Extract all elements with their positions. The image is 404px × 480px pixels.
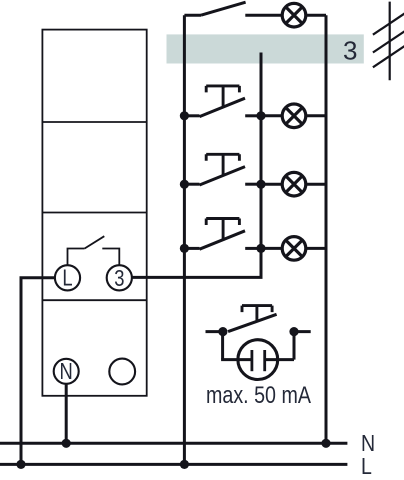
terminal 3 circle bbox=[107, 265, 132, 290]
wire: lamp E3 to right bus bbox=[306, 183, 326, 186]
legend: illuminated push button left lead bbox=[206, 332, 223, 360]
terminal N circle bbox=[54, 359, 79, 384]
wire: lamp E1 to right bus bbox=[306, 14, 326, 17]
internal relay contact blade bbox=[85, 236, 105, 248]
lamp E2 bbox=[282, 104, 306, 128]
push button S3 blade bbox=[200, 167, 246, 185]
row 3: junction dot on middle bus bbox=[256, 244, 265, 253]
legend: junction dot left bbox=[218, 327, 227, 336]
legend: glow lamp circle bbox=[238, 340, 278, 380]
row 1: junction dot on middle bus bbox=[256, 111, 265, 120]
device box divider 2 bbox=[42, 212, 146, 214]
wire: middle bus to lamp E4 bbox=[261, 247, 282, 250]
wire: top row left bbox=[184, 14, 201, 17]
device box divider 3 bbox=[42, 299, 146, 301]
row 2: stub to middle bus bbox=[245, 183, 261, 186]
3-conductor continuation hatch: vertical line bbox=[389, 2, 391, 81]
junction dot right bus on N line bbox=[321, 439, 330, 448]
row 1: junction dot on left bus bbox=[180, 111, 189, 120]
junction dot N terminal on N line bbox=[62, 439, 71, 448]
junction dot left bus on L line bbox=[180, 460, 189, 469]
row 3: junction dot on left bus bbox=[180, 244, 189, 253]
hatch slash 3 bbox=[373, 46, 404, 68]
svg-text:3: 3 bbox=[114, 266, 124, 291]
switch S1 blade bbox=[201, 2, 246, 15]
svg-text:L: L bbox=[62, 266, 72, 291]
wire: left bus bbox=[183, 15, 186, 464]
svg-text:N: N bbox=[361, 430, 375, 456]
terminal L circle bbox=[55, 265, 80, 290]
row 1: stub to middle bus bbox=[245, 114, 261, 117]
row 3: push button S4 stub bbox=[184, 247, 199, 250]
hatch slash 1 bbox=[373, 13, 404, 35]
N line bbox=[0, 442, 347, 445]
legend: right lead bbox=[294, 332, 311, 360]
device box divider 1 bbox=[42, 121, 146, 123]
row 3: stub to middle bus bbox=[245, 247, 261, 250]
lamp E1 bbox=[282, 3, 306, 27]
lamp E3 bbox=[282, 172, 306, 196]
wire: L terminal to L line bbox=[21, 278, 55, 465]
push button S2 actuator bbox=[206, 86, 239, 108]
L line bbox=[0, 463, 347, 466]
hatch slash 2 bbox=[373, 31, 404, 53]
wire: switch S1 to lamp E1 bbox=[245, 14, 282, 17]
wire: middle bus to lamp E2 bbox=[261, 114, 282, 117]
junction dot L line left bbox=[16, 460, 25, 469]
push button S3 actuator bbox=[206, 154, 239, 176]
terminal spare circle bbox=[109, 359, 135, 385]
legend: push button S5 blade bbox=[228, 314, 277, 331]
push button S2 blade bbox=[200, 98, 246, 116]
svg-text:3: 3 bbox=[343, 35, 357, 65]
wire: 3 terminal to middle bus, middle bus bbox=[132, 53, 261, 278]
wire: lamp E2 to right bus bbox=[306, 114, 326, 117]
svg-text:L: L bbox=[361, 454, 372, 480]
svg-text:max. 50 mA: max. 50 mA bbox=[206, 381, 311, 408]
row 2: junction dot on middle bus bbox=[256, 180, 265, 189]
legend: glow lamp electrode left bbox=[250, 350, 253, 371]
push button S4 actuator bbox=[206, 219, 239, 241]
legend: glow lamp lead into circle left bbox=[221, 358, 250, 361]
push button S4 blade bbox=[200, 231, 246, 249]
wire: N terminal down to N line bbox=[65, 384, 68, 444]
legend: push button S5 actuator bbox=[242, 306, 272, 322]
wire: lamp E4 to right bus bbox=[306, 247, 326, 250]
legend: junction dot right bbox=[289, 327, 298, 336]
svg-text:N: N bbox=[60, 359, 73, 384]
wire: middle bus to lamp E3 bbox=[261, 183, 282, 186]
legend: glow lamp lead into circle right bbox=[265, 358, 294, 361]
legend: glow lamp electrode right bbox=[263, 350, 266, 371]
internal relay contact wiring bbox=[68, 249, 120, 266]
lamp E4 bbox=[282, 237, 306, 261]
net 3 highlight band bbox=[167, 34, 364, 63]
row 2: push button S3 stub bbox=[184, 183, 199, 186]
row 1: push button S2 stub bbox=[184, 114, 199, 117]
device box bbox=[42, 30, 146, 396]
row 2: junction dot on left bus bbox=[180, 180, 189, 189]
wire: right bus bbox=[325, 15, 328, 443]
